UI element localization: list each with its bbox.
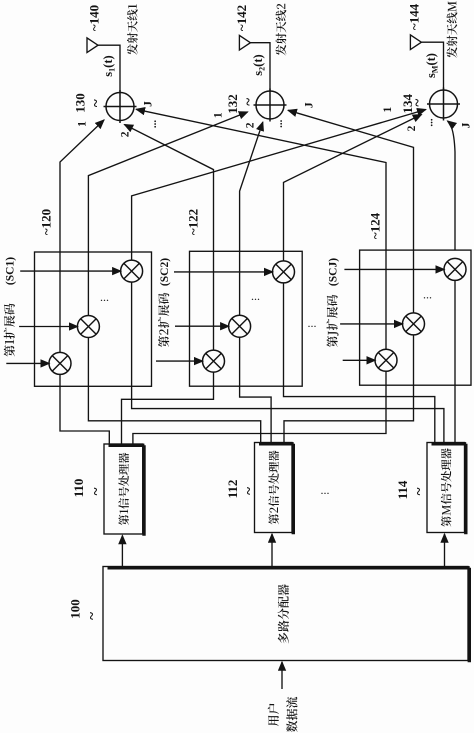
svg-text:~: ~ — [88, 487, 104, 495]
wire antenna 140 feed — [98, 45, 120, 92]
svg-text:J: J — [460, 122, 472, 128]
demultiplexer box 100 — [103, 567, 468, 661]
svg-text:132: 132 — [225, 94, 240, 114]
svg-text:...: ... — [308, 316, 317, 330]
adder (summer) 134 — [427, 88, 460, 121]
multiplier in box 120 row 1 — [49, 352, 71, 374]
signal processor box 114 — [427, 443, 465, 533]
label 多路分配器 — [278, 584, 289, 643]
label 发射天线2 — [276, 4, 287, 56]
svg-text:114: 114 — [395, 480, 410, 499]
antenna 140 triangle — [87, 38, 98, 53]
antenna 144 triangle — [410, 35, 421, 50]
signal processor box 110 — [104, 444, 143, 534]
label 第M信号处理器 — [441, 448, 452, 526]
wire spreading code input arrow to multiplier 3 of box 124 — [344, 268, 444, 270]
signal processor box 112 — [255, 443, 293, 533]
svg-text:~: ~ — [241, 487, 257, 495]
svg-text:s2(t): s2(t) — [251, 54, 267, 75]
svg-text:(SC2): (SC2) — [159, 258, 171, 286]
spreading code box 120 — [35, 252, 152, 386]
svg-text:~122: ~122 — [186, 209, 201, 235]
wire spreading code input arrow to multiplier 3 of box 120 — [20, 270, 121, 272]
label 发射天线1 — [127, 4, 138, 55]
wire box 122 multiplier 2 output to adder 132 — [240, 122, 263, 315]
wire box 122 multiplier 1 output to adder 130 — [124, 125, 213, 351]
wire proc 114 to box 122 multiplier 3 — [284, 283, 435, 443]
svg-text:J: J — [142, 101, 154, 107]
wire spreading code input arrow to multiplier 1 of box 120 — [6, 362, 49, 364]
multiplier in box 120 row 2 — [77, 316, 99, 338]
multiplier in box 124 row 1 — [375, 349, 397, 371]
label 第1信号处理器 — [118, 453, 129, 525]
svg-text:~120: ~120 — [39, 209, 54, 235]
svg-text:~: ~ — [89, 99, 105, 107]
wire proc 112 to box 120 multiplier 2 — [88, 338, 260, 443]
svg-text:s1(t): s1(t) — [101, 55, 117, 76]
adder (summer) 132 — [254, 89, 287, 122]
svg-text:~124: ~124 — [368, 212, 383, 239]
wire box 120 multiplier 2 output to adder 132 — [88, 112, 247, 316]
wire spreading code input arrow to multiplier 2 of box 120 — [19, 326, 78, 328]
wire box 124 multiplier 1 output to adder 130 — [136, 109, 386, 349]
svg-text:...: ... — [321, 483, 330, 497]
label 第1扩展码 (part) — [4, 303, 15, 356]
svg-text:...: ... — [147, 120, 159, 129]
svg-text:~: ~ — [241, 98, 257, 106]
multiplier in box 122 row 1 — [203, 350, 225, 372]
label 第J扩展码 (part) — [327, 295, 339, 347]
svg-text:...: ... — [423, 118, 435, 127]
svg-text:~: ~ — [410, 99, 426, 107]
wire spreading code input arrow to multiplier 2 of box 124 — [340, 323, 403, 325]
svg-text:(SC1): (SC1) — [5, 257, 17, 285]
wire antenna 144 feed — [421, 42, 443, 90]
wire box 120 multiplier 1 output to adder 130 — [60, 120, 104, 352]
wire proc 114 to box 120 multiplier 3 — [132, 282, 444, 442]
wire antenna 142 feed — [250, 43, 270, 91]
wire box 120 multiplier 3 output to adder 134 — [132, 110, 426, 261]
wire spreading code input arrow to multiplier 3 of box 122 — [174, 271, 273, 273]
svg-text:...: ... — [423, 288, 432, 302]
wire demux to proc 112 — [271, 534, 273, 567]
svg-text:112: 112 — [225, 480, 240, 499]
svg-text:100: 100 — [68, 599, 83, 619]
svg-text:...: ... — [273, 119, 285, 128]
wire proc 110 to box 120 multiplier 1 — [60, 374, 109, 444]
label 用户 — [268, 704, 279, 727]
wire proc 112 to box 122 multiplier 2 — [240, 337, 272, 442]
svg-text:~144: ~144 — [407, 3, 422, 30]
svg-text:1: 1 — [77, 121, 89, 127]
svg-text:1: 1 — [212, 112, 224, 118]
label 数据流 — [286, 697, 297, 732]
multiplier in box 124 row 3 — [444, 258, 466, 280]
svg-text:130: 130 — [73, 93, 88, 113]
wire box 124 multiplier 3 output to adder 134 (curved J input) — [448, 121, 456, 250]
spreading code box 124 — [360, 250, 471, 385]
svg-text:(SCJ): (SCJ) — [327, 258, 339, 286]
wire spreading code input arrow to multiplier 2 of box 122 — [175, 325, 229, 327]
svg-text:1: 1 — [382, 106, 394, 112]
wire spreading code input arrow to multiplier 1 of box 124 — [343, 359, 376, 361]
wire proc 110 to box 124 multiplier 1 — [133, 371, 386, 444]
label 第2信号处理器 — [268, 451, 279, 525]
svg-text:~142: ~142 — [234, 5, 249, 31]
wire box 122 multiplier 3 output to adder 134 — [284, 115, 422, 261]
svg-text:2: 2 — [406, 125, 418, 131]
wire demux to proc 110 — [121, 536, 123, 567]
svg-text:...: ... — [251, 289, 260, 303]
multiplier in box 124 row 2 — [403, 313, 425, 335]
wire demux to proc 114 — [444, 534, 446, 567]
svg-text:J: J — [303, 102, 315, 108]
wire proc 110 to box 122 multiplier 1 — [122, 372, 214, 444]
svg-text:~140: ~140 — [87, 5, 102, 31]
wire proc 112 to box 124 multiplier 2 — [284, 335, 414, 443]
spreading code box 122 — [190, 251, 303, 386]
wire user data input arrow — [281, 662, 283, 689]
wire spreading code input arrow to multiplier 1 of box 122 — [156, 360, 203, 362]
adder (summer) 130 — [104, 90, 137, 123]
svg-text:~: ~ — [411, 487, 427, 495]
svg-text:2: 2 — [244, 122, 256, 128]
svg-text:sM(t): sM(t) — [424, 53, 440, 78]
multiplier in box 122 row 2 — [229, 315, 251, 337]
wire box 124 multiplier 2 output to adder 132 — [288, 110, 413, 313]
antenna 142 triangle — [239, 35, 250, 50]
multiplier in box 122 row 3 — [273, 261, 295, 283]
label 发射天线M — [447, 1, 458, 58]
wire proc 114 to box 124 multiplier 3 — [454, 280, 456, 442]
svg-text:~: ~ — [84, 612, 100, 620]
svg-text:2: 2 — [120, 131, 132, 137]
svg-text:110: 110 — [71, 479, 86, 498]
svg-text:...: ... — [100, 290, 109, 304]
multiplier in box 120 row 3 — [121, 260, 143, 282]
label 第2扩展码 (part) — [158, 293, 169, 347]
